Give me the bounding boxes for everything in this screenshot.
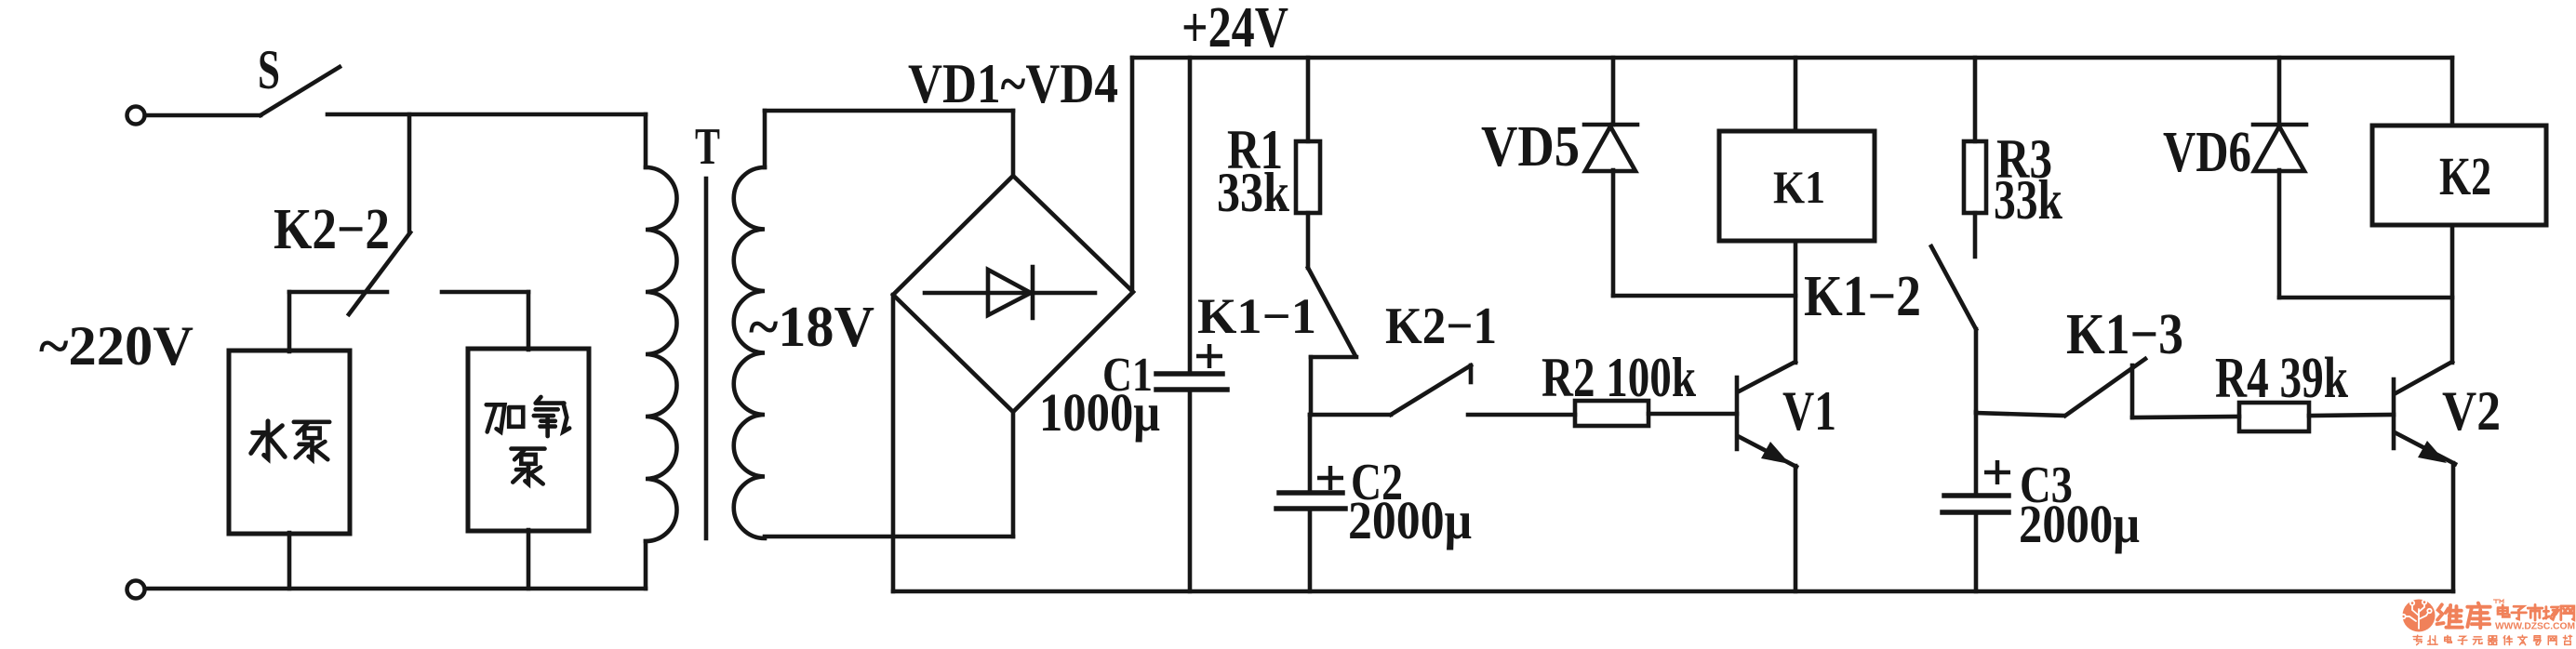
svg-text:VD6: VD6 <box>2163 121 2251 184</box>
svg-text:+24V: +24V <box>1181 0 1288 60</box>
svg-text:2000μ: 2000μ <box>2019 494 2140 554</box>
svg-text:S: S <box>258 39 280 100</box>
svg-text:R2 100k: R2 100k <box>1542 347 1696 408</box>
svg-text:VD5: VD5 <box>1481 115 1580 179</box>
svg-text:2000μ: 2000μ <box>1348 490 1472 550</box>
svg-text:K1−3: K1−3 <box>2066 303 2183 366</box>
svg-text:33k: 33k <box>1994 169 2062 231</box>
svg-text:VD1~VD4: VD1~VD4 <box>908 53 1118 114</box>
svg-text:K1: K1 <box>1773 161 1825 213</box>
svg-text:33k: 33k <box>1217 162 1290 223</box>
svg-text:1000μ: 1000μ <box>1039 382 1160 443</box>
svg-text:~220V: ~220V <box>39 315 194 377</box>
svg-text:R4 39k: R4 39k <box>2215 347 2348 410</box>
svg-text:WWW.DZSC.COM: WWW.DZSC.COM <box>2495 622 2575 632</box>
svg-text:T: T <box>695 118 720 176</box>
svg-text:K2: K2 <box>2439 146 2491 206</box>
svg-text:K2−2: K2−2 <box>274 198 390 261</box>
svg-text:~18V: ~18V <box>749 296 874 359</box>
svg-text:V2: V2 <box>2442 380 2501 442</box>
svg-text:K1−2: K1−2 <box>1804 265 1921 328</box>
svg-text:V1: V1 <box>1782 380 1836 442</box>
svg-text:K1−1: K1−1 <box>1197 288 1316 344</box>
svg-text:K2−1: K2−1 <box>1385 298 1497 355</box>
